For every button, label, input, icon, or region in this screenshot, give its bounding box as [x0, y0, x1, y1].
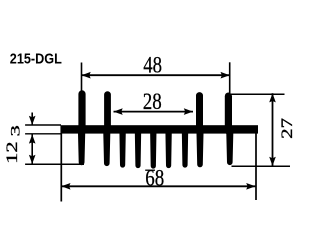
dim 48 right arrowhead	[221, 72, 230, 79]
dim 68 left arrowhead	[61, 183, 70, 190]
svg-text:27: 27	[278, 118, 295, 139]
left channel bottom lip + 12 extension	[25, 163, 84, 165]
down leg under F1	[78, 134, 85, 166]
right channel bottom lip + 27 bottom extension	[232, 165, 291, 167]
dim 3 arrow line	[31, 113, 33, 125]
dim 27 text (rotated)	[278, 118, 295, 139]
svg-text:48: 48	[143, 53, 162, 78]
svg-text:12: 12	[4, 141, 21, 163]
right channel wall + 68 right extension	[255, 134, 257, 201]
down leg under F4	[226, 134, 233, 166]
fin F1 (tall, up)	[78, 94, 85, 131]
dim 48 right extension line	[229, 62, 231, 93]
dim 27 line	[272, 93, 274, 166]
dim 48 left extension line	[81, 63, 83, 92]
short down fin d1	[119, 134, 125, 168]
dim 27 top arrowhead	[269, 93, 276, 102]
dim 12 arrow line	[31, 134, 33, 164]
dim 12 top arrowhead	[29, 134, 36, 143]
small overbar artifact above 6	[145, 169, 155, 171]
dim 12 bottom arrowhead	[29, 155, 36, 164]
dim 48 left arrowhead	[82, 72, 91, 79]
dim 48 line	[82, 74, 230, 76]
dim 12 text (rotated)	[4, 141, 21, 163]
dim 28 right arrowhead	[184, 108, 193, 115]
short down fin d2	[135, 134, 141, 169]
down leg under F2	[103, 134, 110, 167]
dim 27 bottom arrowhead	[269, 157, 276, 166]
dim 3 text (rotated)	[8, 125, 23, 136]
svg-text:68: 68	[145, 166, 164, 191]
fin F4 (tall, up)	[225, 96, 232, 131]
dim 68 right arrowhead	[246, 183, 255, 190]
dim 28 line	[114, 111, 194, 113]
svg-text:28: 28	[143, 89, 162, 114]
left channel wall + 68 left extension	[60, 126, 62, 202]
dim 27 top extension line	[231, 93, 285, 95]
dim 3 extension bottom	[25, 133, 61, 135]
fin F3 (tall, up)	[196, 96, 203, 131]
down leg under F3	[197, 134, 204, 168]
dim 3 extension top	[25, 124, 61, 126]
dim 68 line	[61, 185, 255, 187]
short down fin d4	[165, 134, 171, 169]
short down fin d3	[150, 134, 156, 169]
short down fin d5	[182, 134, 188, 168]
fin F2 (tall, up)	[104, 95, 111, 131]
svg-text:3: 3	[8, 125, 23, 136]
dim 3 arrowhead	[29, 116, 36, 125]
dim 28 left arrowhead	[114, 108, 123, 115]
heatsink base plate	[61, 125, 258, 133]
svg-text:215-DGL: 215-DGL	[10, 52, 62, 68]
